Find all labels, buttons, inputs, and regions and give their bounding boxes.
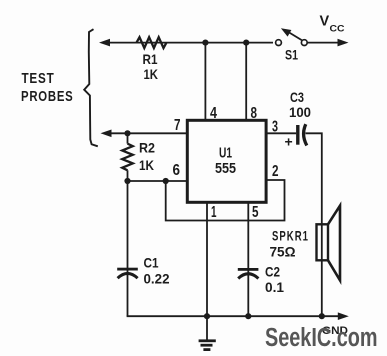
- wire bottom rail (GND): [127, 315, 341, 317]
- svg-text:100: 100: [289, 104, 311, 120]
- svg-text:V: V: [320, 14, 330, 30]
- node junction pin1/bottom rail: [204, 313, 210, 319]
- node junction R2 top: [124, 130, 130, 136]
- svg-text:TEST: TEST: [22, 70, 55, 87]
- node junction R2 bottom: [124, 178, 130, 184]
- ground symbol: [206, 316, 208, 339]
- wire pin8 vertical: [245, 43, 247, 120]
- svg-text:5: 5: [252, 204, 259, 221]
- wire pin6 horizontal: [128, 180, 188, 182]
- svg-text:R1: R1: [143, 51, 158, 67]
- svg-text:SeekIC.com: SeekIC.com: [265, 324, 378, 352]
- svg-text:1K: 1K: [144, 66, 159, 82]
- test probes brace: [84, 29, 98, 146]
- capacitor C2: [238, 268, 259, 271]
- node junction pin6 branch: [163, 178, 169, 184]
- resistor R1: [137, 37, 167, 48]
- speaker SPKR1: [317, 224, 329, 260]
- svg-text:2: 2: [272, 163, 279, 180]
- wire pin7 horizontal: [105, 132, 187, 134]
- Vcc supply arrow: [307, 42, 341, 44]
- wire top rail (Vcc rail): [103, 42, 273, 44]
- svg-text:0.1: 0.1: [265, 279, 284, 295]
- GND arrow: [338, 312, 349, 320]
- node junction pin4/top rail: [202, 40, 208, 46]
- capacitor C1: [117, 268, 138, 271]
- svg-text:R2: R2: [139, 140, 155, 156]
- svg-text:C2: C2: [265, 264, 280, 280]
- svg-text:7: 7: [174, 117, 181, 134]
- svg-text:S1: S1: [285, 48, 298, 63]
- IC U1 555 box: [187, 120, 266, 202]
- svg-text:0.22: 0.22: [144, 271, 170, 287]
- test probe arrow top: [99, 39, 110, 47]
- wire pin1 vertical: [206, 202, 208, 316]
- wire C3 to speaker branch: [306, 133, 322, 316]
- svg-text:6: 6: [173, 162, 181, 179]
- svg-text:1K: 1K: [139, 157, 154, 173]
- node junction speaker/bottom rail: [319, 313, 325, 319]
- test probe arrow bottom: [101, 130, 112, 138]
- svg-text:555: 555: [215, 161, 236, 177]
- svg-text:SPKR1: SPKR1: [272, 228, 309, 244]
- capacitor C3 (polarized): [296, 125, 299, 145]
- switch S1: [276, 40, 282, 46]
- svg-text:CC: CC: [330, 24, 345, 35]
- svg-text:3: 3: [272, 119, 278, 136]
- svg-text:+: +: [285, 134, 293, 150]
- wire pin3 horizontal: [265, 132, 296, 134]
- svg-text:C1: C1: [144, 255, 159, 271]
- node junction pin8/top rail: [243, 40, 249, 46]
- svg-text:C3: C3: [290, 89, 304, 105]
- node junction C2/bottom rail: [245, 313, 251, 319]
- svg-text:75Ω: 75Ω: [270, 244, 296, 260]
- wire pin6-to-pin2 U loop: [166, 180, 285, 221]
- svg-text:U1: U1: [219, 146, 232, 162]
- resistor R2: [127, 133, 129, 143]
- wire pin5 vertical: [247, 202, 249, 316]
- wire C1 branch vertical: [127, 181, 129, 316]
- svg-text:PROBES: PROBES: [21, 88, 74, 105]
- wire pin4 vertical: [204, 43, 206, 120]
- svg-text:1: 1: [211, 204, 217, 221]
